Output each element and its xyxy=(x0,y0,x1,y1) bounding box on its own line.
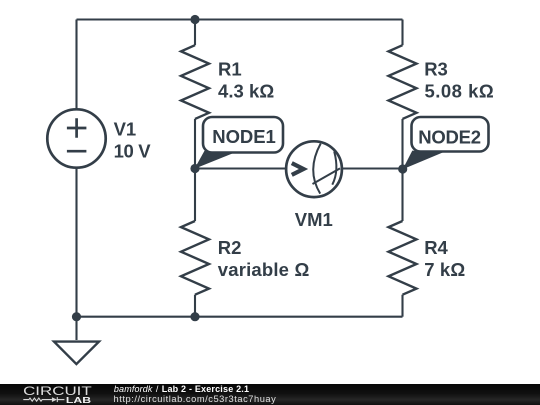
wire top rail xyxy=(77,18,403,20)
svg-text:10 V: 10 V xyxy=(114,141,152,162)
svg-text:5.08 kΩ: 5.08 kΩ xyxy=(425,81,494,102)
resistor R4 xyxy=(389,221,417,295)
resistor R3 xyxy=(389,45,417,119)
wire R2 top lead xyxy=(194,169,196,222)
junction node bottom-middle xyxy=(190,312,199,321)
svg-text:7 kΩ: 7 kΩ xyxy=(424,259,465,280)
node NODE2 flag xyxy=(403,117,489,169)
ground xyxy=(54,342,99,365)
label V1 value xyxy=(114,58,494,280)
svg-text:VM1: VM1 xyxy=(295,209,333,230)
junction node top xyxy=(190,15,199,24)
svg-text:bamfordk: bamfordk xyxy=(114,384,153,394)
svg-text:NODE1: NODE1 xyxy=(212,126,275,147)
wire R3 bottom lead xyxy=(401,119,403,169)
wire R3 top lead xyxy=(401,20,403,46)
wire middle rail (voltmeter) xyxy=(195,167,403,169)
svg-text:LAB: LAB xyxy=(66,395,91,405)
resistor R1 xyxy=(181,45,209,119)
svg-text:R4: R4 xyxy=(424,237,448,258)
svg-text:R2: R2 xyxy=(218,237,242,258)
svg-text:NODE2: NODE2 xyxy=(418,127,481,148)
wire left branch lower xyxy=(75,169,77,317)
svg-text:V1: V1 xyxy=(114,118,137,139)
svg-text:variable Ω: variable Ω xyxy=(218,259,310,280)
voltage source V1 xyxy=(47,109,105,167)
svg-text:http://circuitlab.com/c53r3tac: http://circuitlab.com/c53r3tac7huay xyxy=(114,394,277,404)
wire left branch upper xyxy=(75,20,77,109)
junction node NODE2 xyxy=(398,164,407,173)
wire R2 bottom lead xyxy=(194,295,196,317)
wire R1 bottom lead xyxy=(194,119,196,169)
wire R4 top lead xyxy=(401,169,403,221)
svg-text:4.3 kΩ: 4.3 kΩ xyxy=(218,81,274,102)
svg-text:R3: R3 xyxy=(424,58,448,79)
resistor R2 xyxy=(181,221,209,295)
svg-text:Lab 2 - Exercise 2.1: Lab 2 - Exercise 2.1 xyxy=(162,384,249,394)
wire R4 bottom lead xyxy=(401,295,403,317)
junction node bottom-left xyxy=(72,312,81,321)
logo resistor-diode squiggle xyxy=(23,397,64,402)
wire bottom rail xyxy=(77,316,403,318)
junction node NODE1 xyxy=(190,164,199,173)
svg-text:R1: R1 xyxy=(218,59,242,80)
wire R1 top lead xyxy=(194,20,196,46)
wire ground stub xyxy=(75,317,77,340)
voltmeter VM1 xyxy=(286,141,342,197)
node NODE1 flag xyxy=(195,117,284,169)
